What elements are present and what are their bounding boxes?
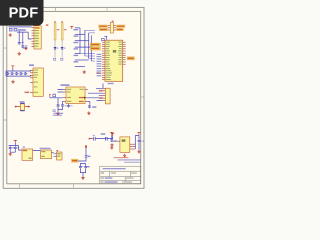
capacitor C7 [20, 72, 23, 75]
wire [80, 30, 95, 61]
resistor R2 top pin [61, 21, 63, 23]
wire top [80, 163, 85, 165]
net label +5V [71, 159, 78, 162]
label above U3 [29, 64, 34, 66]
IC U1 body [105, 40, 123, 81]
pin dots [15, 106, 16, 108]
wire [50, 97, 63, 104]
label text [54, 113, 64, 114]
wire rails [6, 68, 31, 76]
zone tick left [4, 119, 7, 121]
capacitor C3 [18, 42, 21, 45]
capacitor C14 (series) [94, 137, 96, 141]
url text above [118, 159, 141, 160]
IC U1 right pins [123, 42, 126, 64]
sheet outer border [3, 7, 144, 188]
capacitor C9 [57, 104, 60, 107]
capacitor C18 [79, 165, 82, 168]
pin dot [84, 97, 86, 99]
wire [68, 103, 70, 106]
capacitor C11 [88, 105, 91, 108]
label text [87, 166, 90, 167]
svg-text:PDF: PDF [9, 6, 39, 22]
date label [101, 177, 105, 178]
IC U8 body [120, 137, 130, 152]
IC U3 left pins [30, 70, 33, 92]
sheet label [126, 177, 134, 178]
capacitor C16 [110, 139, 113, 142]
number label [111, 172, 116, 173]
capacitor C4 [21, 45, 24, 48]
bead blue caps [20, 103, 24, 104]
IC U2 left pins [32, 28, 35, 47]
component Y1 body [110, 22, 113, 33]
revision label [131, 172, 137, 173]
ground [81, 176, 84, 179]
label [20, 101, 25, 102]
resistor R2 [61, 23, 63, 40]
value text R1 [57, 29, 60, 30]
wire [58, 89, 64, 92]
IC U4 pins [63, 89, 88, 101]
wire bottom [80, 169, 85, 176]
right pin [25, 106, 30, 108]
page margin background [0, 0, 149, 198]
wire [104, 36, 106, 39]
IC U5 body [22, 149, 33, 160]
red pin top [85, 145, 87, 148]
ground [24, 46, 27, 49]
value text row [114, 157, 129, 158]
wire right [135, 136, 139, 150]
net label text [91, 48, 99, 49]
wire [58, 107, 63, 112]
label text [53, 115, 62, 116]
net label [54, 58, 56, 60]
capacitor C17 [138, 139, 141, 142]
sheet inner border [7, 11, 141, 183]
U7 left stubs [54, 154, 57, 157]
switch S1 [53, 94, 56, 97]
power flag right [137, 133, 140, 136]
capacitor C3 [102, 38, 105, 40]
zone tick top2 [106, 8, 108, 11]
pins left [108, 26, 116, 30]
net label right [116, 25, 125, 28]
IC U1 left pins [102, 42, 105, 79]
ground [9, 152, 12, 155]
power flag left [110, 132, 113, 135]
left pin [117, 140, 120, 142]
IC U5 text [23, 150, 27, 151]
net mark [53, 110, 55, 112]
IC U1 name mark [113, 50, 116, 53]
ground [87, 111, 90, 114]
size label [101, 172, 105, 173]
IC U8 name [122, 139, 126, 141]
net label right2 [116, 28, 123, 31]
LED D2 [61, 47, 66, 49]
LED D1 [54, 47, 59, 49]
resistor R1 top pin [54, 21, 56, 23]
net label text [128, 58, 134, 59]
ground [83, 70, 86, 73]
capacitor C2 [14, 28, 17, 31]
IC U6 text [41, 151, 45, 152]
power flag [11, 66, 14, 69]
IC U3 body [33, 68, 43, 96]
harness stubs with net labels [75, 28, 92, 67]
zone tick bottom [19, 184, 21, 188]
ground [110, 143, 113, 146]
IC U2 body [34, 26, 41, 49]
wire [78, 157, 86, 161]
U7 text [57, 153, 61, 154]
ground right [137, 150, 140, 153]
drawnby label [124, 181, 132, 182]
red net text [99, 90, 103, 92]
wire [88, 96, 103, 105]
IC U3 pin rows [34, 70, 38, 93]
ground center [123, 154, 126, 157]
net label text [18, 29, 26, 31]
IC U6 body [41, 150, 52, 159]
connector J1 body [105, 88, 110, 104]
capacitor C15 [85, 156, 88, 157]
label above [23, 146, 25, 147]
power flag VCC [70, 26, 73, 29]
IC U4 inner text [67, 89, 84, 102]
label above J1 [108, 83, 114, 84]
capacitor C4 [6, 72, 9, 75]
title block outline [100, 166, 141, 184]
wire [95, 136, 112, 138]
connector J1 pins [103, 88, 106, 100]
net label text [91, 44, 99, 45]
net label [61, 58, 63, 60]
capacitor C20 [67, 104, 70, 107]
wire [138, 143, 140, 150]
zone tick left2 [4, 47, 7, 49]
red net text [99, 97, 103, 99]
IC U8 right pins [130, 144, 136, 149]
capacitor C5 [11, 72, 14, 75]
zone tick bottom2 [73, 184, 75, 188]
ground [56, 112, 59, 115]
net label XTAL1 [90, 43, 101, 46]
ground [11, 80, 14, 83]
power flag [14, 140, 17, 143]
wire [52, 151, 54, 153]
wire [55, 49, 62, 57]
wire [112, 135, 117, 141]
flag on U7 [56, 150, 58, 152]
wire [9, 143, 41, 152]
capacitor C10 [61, 104, 64, 107]
IC U7 body [57, 152, 63, 160]
capacitor C6 [15, 72, 18, 75]
wire [9, 27, 32, 45]
pin mark [46, 24, 48, 25]
IC U2 first pin text (orange) [35, 27, 40, 29]
left pin net texts column [97, 54, 102, 77]
net label left2 [99, 28, 107, 31]
net label text [72, 160, 77, 161]
label text [88, 156, 91, 158]
date value [105, 177, 112, 178]
resistor R1 [54, 23, 56, 40]
misc tiny value texts [8, 42, 144, 167]
zone tick right [141, 96, 144, 98]
value text R2 [64, 29, 67, 30]
red net text under labels [96, 72, 100, 73]
file value [105, 181, 118, 182]
wire [88, 84, 103, 94]
capacitor C19 [84, 165, 87, 168]
title text [103, 168, 126, 169]
ground [110, 146, 113, 149]
label above U4 [61, 84, 70, 86]
IC U1 pin name rows [106, 42, 122, 80]
wire [23, 46, 26, 48]
sheet interior [3, 7, 144, 188]
wire harness verticals [80, 28, 91, 61]
capacitor C1 [9, 28, 12, 31]
capacitor C13 [14, 146, 17, 149]
red mark [112, 21, 114, 22]
wire [85, 148, 87, 156]
power flag [111, 133, 114, 136]
file label [101, 181, 104, 182]
label text [92, 106, 96, 108]
IC U4 body [66, 87, 85, 104]
bead FB1 body [20, 104, 24, 111]
IC U2 pin text rows [35, 30, 39, 47]
net label left [99, 25, 108, 28]
label above U6 [40, 148, 51, 149]
net label XTAL2 [90, 47, 101, 50]
zone tick top [55, 8, 57, 11]
red net text [25, 92, 30, 94]
left pin [15, 106, 20, 108]
capacitor C8 [24, 72, 27, 75]
net label right of U1 [127, 57, 135, 60]
power mark [49, 94, 51, 96]
wire [55, 40, 62, 47]
ground [9, 33, 12, 36]
net label texts [74, 29, 79, 63]
component mark [105, 137, 107, 141]
net label texts [99, 26, 124, 30]
red pin [89, 138, 93, 140]
ground [18, 52, 21, 55]
capacitor C12 [9, 146, 12, 149]
label text [101, 133, 106, 135]
